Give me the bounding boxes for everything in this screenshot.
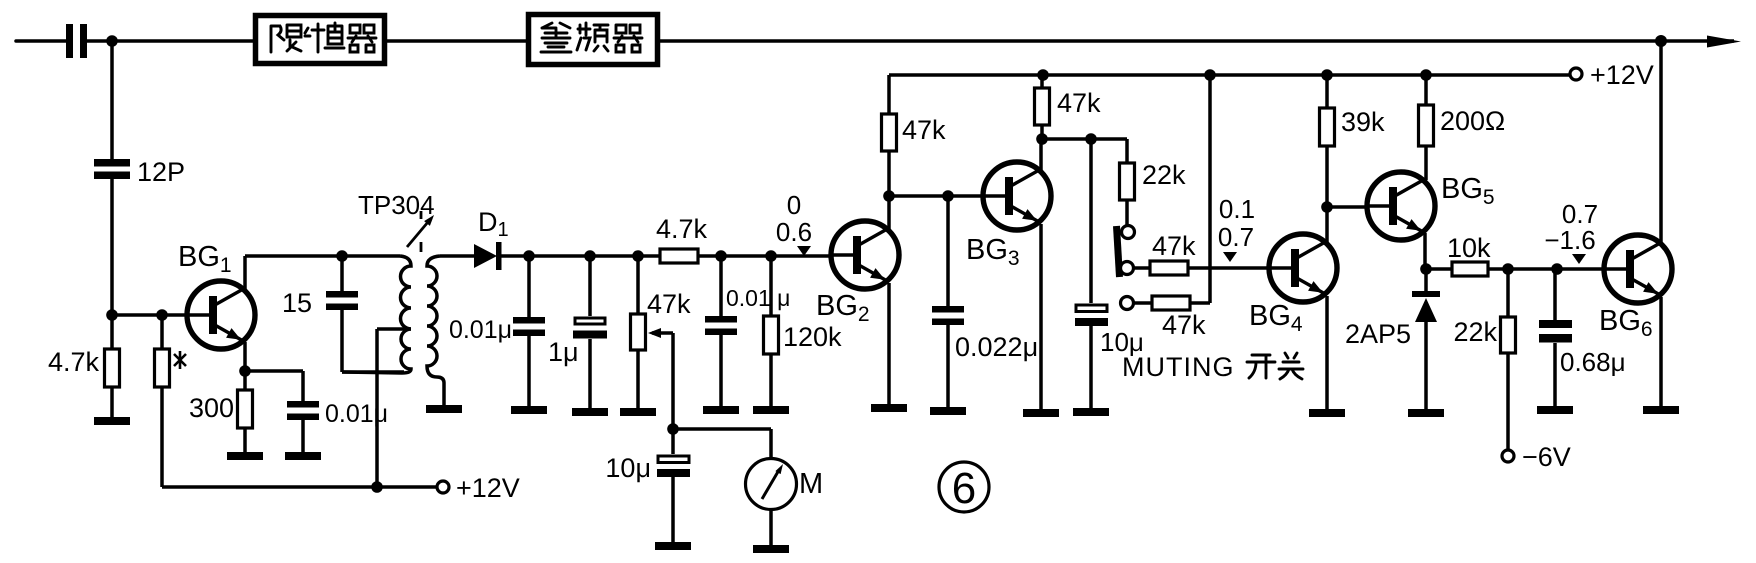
svg-text:BG1: BG1 xyxy=(178,241,232,277)
svg-text:47k: 47k xyxy=(1152,231,1196,261)
ground xyxy=(655,542,691,550)
terminal +12V (left) xyxy=(437,481,449,493)
resistor 4.7k (bias) xyxy=(48,315,120,417)
svg-text:BG4: BG4 xyxy=(1249,300,1303,336)
resistor * (AGC) xyxy=(155,315,187,487)
svg-text:1μ: 1μ xyxy=(548,337,579,367)
ground xyxy=(1643,406,1679,414)
svg-text:47k: 47k xyxy=(1162,310,1206,340)
svg-text:200Ω: 200Ω xyxy=(1440,106,1505,136)
potentiometer 47k xyxy=(631,256,692,429)
svg-text:6: 6 xyxy=(952,464,976,513)
wire xyxy=(87,39,253,43)
svg-text:BG3: BG3 xyxy=(966,234,1020,270)
resistor 47k (muting a) xyxy=(1134,231,1269,275)
wire top rail right with end arrow xyxy=(657,39,1734,43)
capacitor 10μ (meter) xyxy=(605,429,690,542)
svg-text:10μ: 10μ xyxy=(605,453,651,483)
resistor 10k xyxy=(1426,233,1508,276)
ground xyxy=(1537,406,1573,414)
svg-text:−1.6: −1.6 xyxy=(1544,225,1595,255)
svg-text:BG5: BG5 xyxy=(1441,173,1495,209)
transistor BG4 xyxy=(1268,234,1337,302)
resistor 47k (BG3 load) xyxy=(1035,75,1102,139)
label MUTING 开关 xyxy=(1122,352,1303,382)
ground xyxy=(426,405,462,413)
wire BG4 collector xyxy=(1325,207,1329,242)
ground xyxy=(1408,409,1444,417)
wire BG2 collector to BG3 base xyxy=(889,194,983,198)
capacitor 0.01μ (BG1 emitter) xyxy=(287,371,388,452)
wire +12V rail xyxy=(889,73,1570,77)
resistor 22k (-6V) xyxy=(1453,269,1515,450)
wire BG1 collector xyxy=(245,256,400,289)
transformer TP304 primary xyxy=(342,256,411,373)
wire BG5 emitter xyxy=(1423,233,1427,269)
svg-text:47k: 47k xyxy=(902,115,946,145)
svg-text:10k: 10k xyxy=(1447,233,1491,263)
wire xyxy=(385,39,528,43)
capacitor 10μ (muting) xyxy=(1075,139,1144,408)
wire BG2 collector xyxy=(887,196,891,229)
capacitor 0.68μ xyxy=(1539,269,1626,406)
transistor BG2 xyxy=(830,221,899,289)
ground xyxy=(285,452,321,460)
capacitor 0.01μ (filter) xyxy=(705,256,790,406)
resistor 39k xyxy=(1320,75,1386,207)
svg-text:+12V: +12V xyxy=(456,473,520,503)
capacitor 0.01μ (detector) xyxy=(449,256,545,406)
block 鉴频器 (discriminator) xyxy=(529,15,658,65)
wire BG4 emitter xyxy=(1325,296,1329,409)
terminal +12V (rail) xyxy=(1570,68,1582,80)
capacitor 1μ xyxy=(548,256,607,408)
svg-text:0.6: 0.6 xyxy=(776,217,812,247)
wire BG6 collector (to top rail) xyxy=(1659,41,1663,243)
svg-text:4.7k: 4.7k xyxy=(48,347,100,377)
ground xyxy=(94,417,130,425)
wire BG2 emitter xyxy=(887,283,891,404)
resistor 4.7k (series) xyxy=(656,214,708,263)
svg-text:0.1: 0.1 xyxy=(1219,194,1255,224)
svg-text:D1: D1 xyxy=(478,207,509,241)
svg-text:BG2: BG2 xyxy=(816,290,870,326)
svg-text:300: 300 xyxy=(189,393,234,423)
svg-text:TP304: TP304 xyxy=(358,190,435,220)
capacitor 12P xyxy=(94,159,130,179)
wire top rail left xyxy=(16,39,66,43)
transistor BG3 xyxy=(982,162,1051,230)
annotation 0.1 / 0.7 at BG4 base xyxy=(1218,194,1255,262)
wire BG6 emitter xyxy=(1659,297,1663,406)
wire BG4 collector to BG5 base xyxy=(1327,205,1367,209)
switch MUTING xyxy=(1117,226,1135,310)
terminal -6V xyxy=(1502,450,1514,462)
annotation 0.7 / -1.6 at BG6 base xyxy=(1544,199,1598,264)
svg-text:−6V: −6V xyxy=(1522,442,1571,472)
wire rail drop to muting xyxy=(1208,75,1212,303)
ground xyxy=(753,545,789,553)
diode 2AP5 xyxy=(1345,269,1440,409)
ground xyxy=(1023,409,1059,417)
svg-text:0.022μ: 0.022μ xyxy=(955,332,1038,362)
meter M xyxy=(746,459,824,546)
ground xyxy=(871,404,907,412)
ground xyxy=(572,408,608,416)
coupling capacitor (input) xyxy=(66,24,87,58)
wire BG1 base node xyxy=(112,313,187,317)
transistor BG5 xyxy=(1366,172,1435,240)
wire 12P branch lower xyxy=(110,179,114,315)
svg-text:BG6: BG6 xyxy=(1599,305,1653,341)
resistor 22k (muting) xyxy=(1120,139,1187,226)
capacitor 0.022μ xyxy=(932,196,1038,407)
annotation 0 / 0.6 at BG2 base xyxy=(776,190,812,256)
resistor 120k xyxy=(764,256,843,406)
wire wiper node to meter xyxy=(673,429,771,459)
junction top rail / BG6 collector xyxy=(1655,35,1667,47)
wire primary tap xyxy=(377,329,411,487)
resistor 47k (muting b) xyxy=(1134,296,1211,340)
resistor 200Ω xyxy=(1419,75,1506,180)
ground xyxy=(930,407,966,415)
wire 12P branch upper xyxy=(110,41,114,159)
svg-text:22k: 22k xyxy=(1142,160,1186,190)
ground xyxy=(511,406,547,414)
svg-text:2AP5: 2AP5 xyxy=(1345,319,1411,349)
capacitor 15 (tank) xyxy=(282,256,404,372)
resistor 300 xyxy=(189,371,253,452)
transistor BG6 xyxy=(1603,235,1672,303)
svg-text:0: 0 xyxy=(787,190,801,220)
block 限幅器 (limiter) xyxy=(256,16,385,64)
wire BG3 collector node xyxy=(1042,137,1127,141)
ground xyxy=(620,408,656,416)
ground xyxy=(753,406,789,414)
node junction xyxy=(106,35,118,47)
svg-text:4.7k: 4.7k xyxy=(656,214,708,244)
svg-text:12P: 12P xyxy=(137,157,185,187)
wire BG3 collector xyxy=(1039,139,1043,170)
wire +12V feed bottom xyxy=(162,485,437,489)
ground xyxy=(703,406,739,414)
transformer TP304 secondary xyxy=(427,256,444,405)
ground xyxy=(1073,408,1109,416)
wire BG1 emitter xyxy=(245,342,303,371)
resistor 47k (BG2 load) xyxy=(882,75,947,196)
svg-text:120k: 120k xyxy=(783,322,842,352)
svg-text:MUTING: MUTING xyxy=(1122,352,1234,382)
svg-text:39k: 39k xyxy=(1341,107,1385,137)
diode D1 xyxy=(440,207,509,270)
svg-text:0.01μ: 0.01μ xyxy=(449,316,512,344)
svg-text:47k: 47k xyxy=(647,289,691,319)
transistor BG1 xyxy=(186,281,255,349)
ground xyxy=(227,452,263,460)
svg-text:M: M xyxy=(799,468,823,500)
svg-text:0.7: 0.7 xyxy=(1218,222,1254,252)
ground xyxy=(1309,409,1345,417)
wire BG3 emitter xyxy=(1039,224,1043,409)
wire detector output row xyxy=(501,254,831,258)
svg-text:0.68μ: 0.68μ xyxy=(1560,347,1626,377)
TP304 tuning arrow xyxy=(358,190,435,252)
wire to BG6 base xyxy=(1508,267,1606,271)
figure number 6 xyxy=(939,462,989,513)
svg-text:47k: 47k xyxy=(1057,88,1101,118)
svg-text:15: 15 xyxy=(282,288,312,318)
svg-text:0.01 μ: 0.01 μ xyxy=(726,285,790,311)
svg-text:+12V: +12V xyxy=(1590,60,1654,90)
svg-text:22k: 22k xyxy=(1453,317,1497,347)
